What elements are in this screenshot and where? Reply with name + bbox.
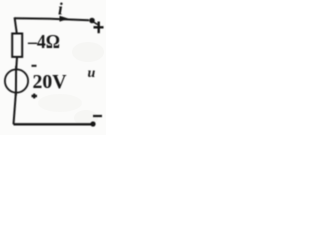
svg-text:20V: 20V [33,71,68,93]
wire: top horizontal from top-left corner to right terminal [15,18,90,20]
port voltage label u [88,66,96,81]
current label i [58,0,63,19]
voltage source US (circle with line through) [5,66,28,96]
svg-text:–4Ω: –4Ω [27,31,60,53]
node: bottom-right terminal dot [90,121,95,126]
minus sign (port polarity -) [93,115,102,117]
resistor R (-4 ohm) [12,34,22,57]
source polarity plus (below circle, right) [32,94,38,99]
resistor value label -4R [27,31,60,53]
wire: resistor bottom lead to source [15,57,18,70]
wire: left vertical lower (source to bottom corner) [14,93,16,125]
plus sign (port polarity +) [94,22,104,34]
node: top-right terminal dot [89,18,97,25]
background paper [0,0,106,135]
svg-text:u: u [88,66,96,81]
wire: left vertical upper (corner down to resistor) [15,17,17,33]
source value label 20V [33,71,68,93]
svg-text:i: i [58,0,63,19]
current arrow (on top wire, pointing right) [60,16,70,22]
source polarity minus (above circle, right) [32,65,37,67]
wire: bottom horizontal [14,123,94,125]
